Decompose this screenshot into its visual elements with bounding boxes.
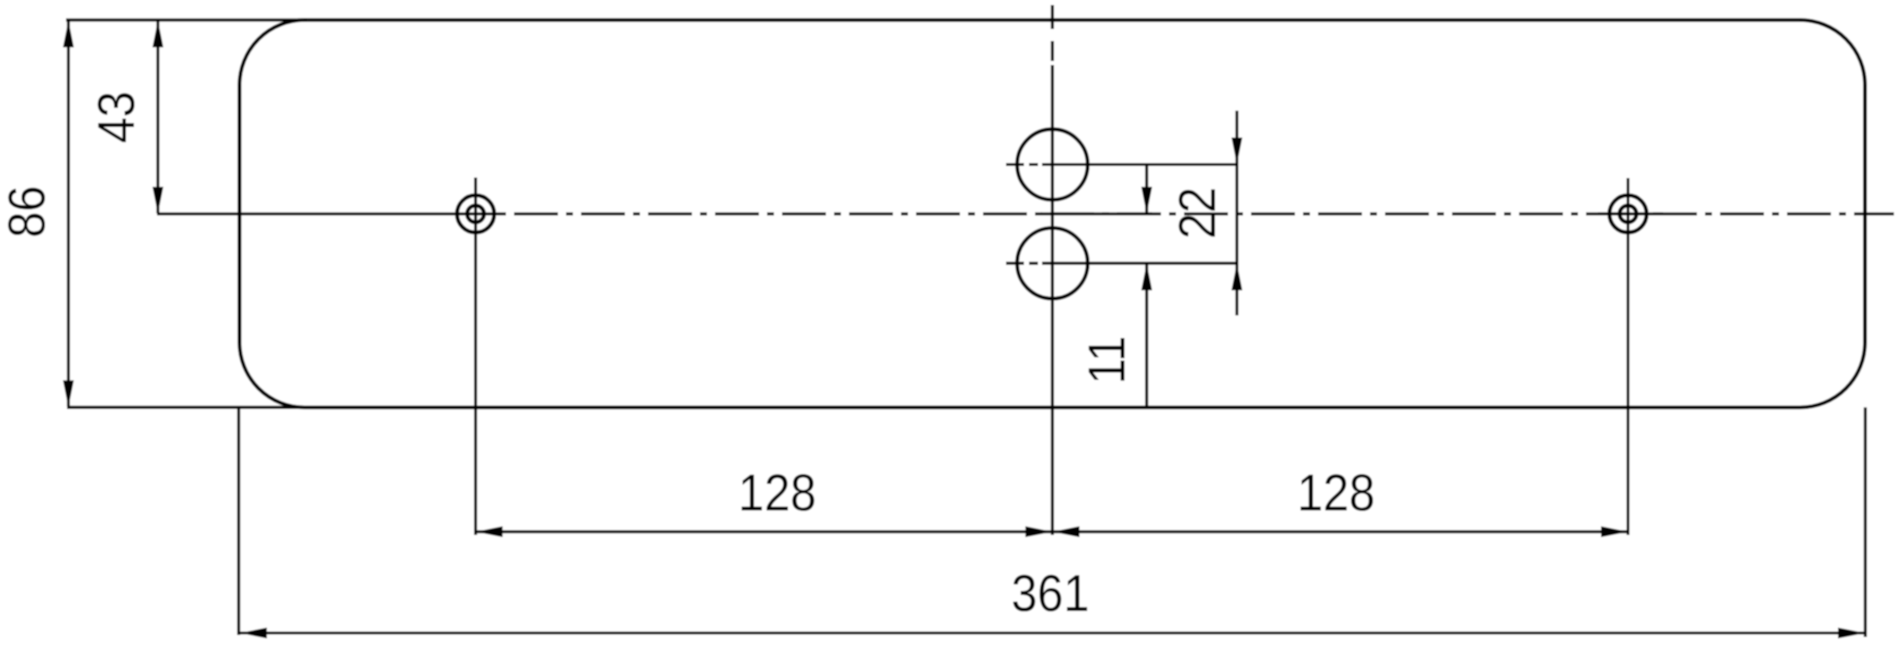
- dimension 86 bottom arrow: [63, 380, 74, 407]
- dimension 361 right arrow: [1838, 628, 1865, 639]
- dimension 128 center left-pointing arrow: [1052, 526, 1079, 537]
- vertical centerline solid segment through circles down to 128 dim: [1051, 65, 1054, 535]
- upper circle center line (22 dim extension): [1006, 163, 1024, 166]
- dimension 86 top arrow: [63, 20, 74, 47]
- dimension 43 line: [156, 21, 159, 213]
- svg-text:86: 86: [0, 186, 56, 238]
- vertical centerline top dash segments: [1051, 5, 1054, 29]
- dimension 11 lower arrow: [1141, 263, 1152, 290]
- dimension 128 left arrow: [476, 526, 503, 537]
- svg-text:43: 43: [88, 91, 146, 143]
- left hole outer circle: [457, 195, 494, 232]
- rounded-rectangle lamp body outline: [240, 20, 1866, 407]
- dimension 11 upper arrow: [1141, 187, 1152, 214]
- svg-text:22: 22: [1169, 187, 1227, 239]
- lower middle circle: [1017, 228, 1088, 299]
- dimension 43 bottom arrow: [153, 187, 164, 214]
- svg-text:128: 128: [738, 464, 816, 522]
- right hole outer circle: [1609, 195, 1646, 232]
- dimension 128 line (both spans): [476, 530, 1628, 533]
- top extension line (86/43 dims): [66, 18, 306, 21]
- dimension 11 upper line: [1145, 165, 1148, 214]
- lower circle center line (22 dim extension): [1006, 262, 1024, 265]
- left hole inner circle: [467, 206, 484, 223]
- horizontal centerline solid left segment: [157, 212, 506, 215]
- dimension 361 left arrow: [240, 628, 267, 639]
- dimension 22 upper arrow: [1232, 138, 1243, 165]
- dimension 86 line: [67, 21, 70, 407]
- svg-text:361: 361: [1011, 565, 1089, 623]
- horizontal centerline solid overlay at middle circles: [1041, 212, 1152, 215]
- bottom extension line (86 dim): [67, 406, 306, 409]
- svg-text:11: 11: [1078, 336, 1136, 385]
- dimension 22 line: [1235, 111, 1238, 316]
- dimension 361 line: [240, 632, 1865, 635]
- dimension 361 left extension line: [237, 407, 240, 635]
- dimension 361 right extension line: [1864, 407, 1867, 637]
- dimension 11 lower line: [1145, 264, 1148, 406]
- left hole vertical crosshair / 128 extension line: [474, 178, 477, 536]
- dimension 128 right arrow: [1601, 526, 1628, 537]
- horizontal centerline dash-dot: [514, 212, 1894, 215]
- svg-text:128: 128: [1297, 464, 1375, 522]
- right hole vertical crosshair / 128 extension line: [1627, 178, 1630, 535]
- right hole inner circle: [1620, 206, 1637, 223]
- dimension 128 center right-pointing arrow: [1025, 526, 1052, 537]
- dimension 22 lower arrow: [1232, 263, 1243, 290]
- horizontal centerline solid crosshair at right hole: [1598, 212, 1663, 215]
- dimension 43 top arrow: [153, 20, 164, 47]
- upper middle circle: [1017, 129, 1088, 200]
